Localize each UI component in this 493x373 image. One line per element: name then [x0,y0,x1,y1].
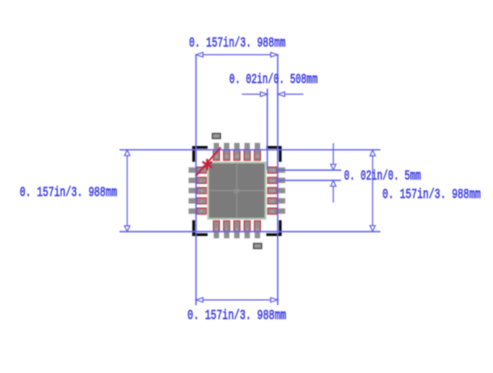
svg-text:13: 13 [270,189,274,193]
svg-text:12: 12 [270,199,274,203]
svg-text:0. 157in/3. 988mm: 0. 157in/3. 988mm [187,308,286,324]
svg-text:3: 3 [200,189,202,193]
svg-text:5: 5 [200,210,202,214]
svg-text:0. 157in/3. 988mm: 0. 157in/3. 988mm [20,185,117,201]
svg-text:0. 157in/3. 988mm: 0. 157in/3. 988mm [382,187,480,203]
svg-text:2: 2 [200,179,202,183]
svg-text:14: 14 [270,179,274,183]
svg-text:0. 02in/0. 508mm: 0. 02in/0. 508mm [229,72,317,88]
svg-text:17: 17 [245,155,249,159]
svg-text:4: 4 [200,199,202,203]
svg-text:16: 16 [255,155,259,159]
svg-text:0. 157in/3. 988mm: 0. 157in/3. 988mm [189,36,286,52]
svg-text:15: 15 [270,169,274,173]
svg-text:0. 02in/0. 5mm: 0. 02in/0. 5mm [344,169,421,185]
svg-text:21: 21 [234,189,240,195]
svg-text:11: 11 [270,210,274,214]
svg-text:18: 18 [235,155,239,159]
svg-text:19: 19 [225,155,229,159]
